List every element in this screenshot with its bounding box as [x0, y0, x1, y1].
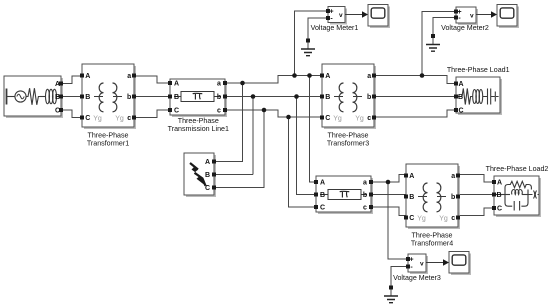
voltage meter3 body: [408, 254, 428, 274]
junction Line2 a node / Voltage Meter3 tap: [386, 180, 391, 185]
transformer T1 (Three-Phase Transformer1) secondary winding: [113, 83, 117, 112]
wire Voltage Meter1 minus to Ground1: [308, 18, 328, 39]
transformer T3 (Three-Phase Transformer3) output port a: [372, 74, 376, 78]
wire Transformer4 a to Load2 A: [459, 175, 494, 183]
wire Transformer3 a to Load1 A: [374, 76, 456, 84]
wire Fault B horizontal segment: [214, 174, 253, 176]
ground block 3 (Voltage Meter3 reference): [384, 286, 398, 303]
svg-text:Voltage Meter3: Voltage Meter3: [393, 274, 441, 282]
svg-text:c: c: [367, 115, 371, 122]
wire Line2 a to Transformer4 A: [371, 175, 406, 183]
ground block 2 (Voltage Meter2 reference): [426, 34, 440, 51]
voltage meter3 plus port: [406, 257, 410, 261]
wire phase B bus tap down to Line2 B: [297, 97, 317, 195]
load1 port B: [454, 95, 458, 99]
svg-text:Three-Phase: Three-Phase: [178, 117, 219, 125]
transformer T1 (Three-Phase Transformer1) input port A: [80, 74, 84, 78]
svg-text:A: A: [325, 73, 330, 80]
transformer T4 (Three-Phase Transformer4) output port b: [456, 195, 460, 199]
load2 parallel RLC branch: [494, 181, 539, 210]
three-phase source output lead: [57, 96, 62, 98]
svg-text:Transformer1: Transformer1: [87, 140, 129, 148]
junction phase B bus / Line2 tap: [294, 94, 299, 99]
wire Fault A tap to phase A bus: [214, 83, 243, 162]
svg-text:B: B: [205, 172, 210, 179]
svg-text:Yg: Yg: [93, 116, 102, 123]
transformer T3 (Three-Phase Transformer3) secondary lead: [353, 96, 362, 98]
three-phase fault port B: [212, 173, 216, 177]
load2 port C: [492, 206, 496, 210]
junction phase A bus / fault tap: [240, 81, 245, 86]
svg-text:Three-Phase: Three-Phase: [411, 231, 452, 239]
voltage meter1 plus port: [326, 9, 330, 13]
signal wire Voltage Meter1 v to Scope1 with arrow: [345, 11, 368, 17]
transformer T1 (Three-Phase Transformer1) input port B: [80, 95, 84, 99]
svg-text:Three-Phase Load2: Three-Phase Load2: [486, 165, 549, 173]
svg-text:C: C: [458, 108, 463, 115]
transformer T1 (Three-Phase Transformer1) primary winding: [99, 83, 103, 112]
transformer T4 (Three-Phase Transformer4) primary winding: [423, 183, 427, 212]
wire Transformer1 b to Line1 B: [134, 96, 170, 98]
transformer T3 (Three-Phase Transformer3) secondary winding: [353, 83, 357, 112]
wire Load1 A node tap to Voltage Meter2 plus: [422, 12, 456, 76]
wire Transformer1 c to Line1 C: [134, 110, 170, 118]
svg-text:b: b: [217, 94, 221, 101]
wire phase A bus tap to Voltage Meter1 plus: [295, 11, 329, 76]
wire Transformer3 b to Load1 B: [374, 96, 456, 98]
transmission line1 output port b: [223, 95, 227, 99]
svg-text:c: c: [363, 205, 367, 212]
svg-text:b: b: [367, 94, 371, 101]
svg-text:Yg: Yg: [333, 116, 342, 123]
scope2 screen: [500, 8, 514, 18]
wire Line2 b to Transformer4 B: [371, 194, 406, 196]
transformer T4 (Three-Phase Transformer4) primary lead: [418, 196, 427, 198]
transformer T1 (Three-Phase Transformer1) output port c: [132, 116, 136, 120]
voltage meter2 minus port: [454, 16, 458, 20]
svg-text:B: B: [409, 194, 414, 201]
wire Line2 c to Transformer4 C: [371, 207, 406, 216]
transformer T3 (Three-Phase Transformer3) input port B: [320, 95, 324, 99]
svg-text:Voltage Meter1: Voltage Meter1: [311, 24, 359, 32]
svg-text:C: C: [205, 185, 210, 192]
voltage meter2 body: [456, 7, 478, 25]
load1 port C: [454, 108, 458, 112]
transformer T4 (Three-Phase Transformer4) body: [406, 164, 460, 229]
three-phase fault body: [184, 153, 216, 197]
transmission line2 B lead: [320, 194, 367, 196]
svg-text:A: A: [174, 81, 179, 88]
transmission line2 output port b: [369, 193, 373, 197]
svg-text:Yg: Yg: [115, 116, 124, 123]
svg-text:Yg: Yg: [439, 216, 448, 223]
wire Voltage Meter2 minus to Ground2: [433, 18, 456, 35]
ground block 1 (Voltage Meter1 reference): [301, 39, 315, 56]
svg-text:b: b: [451, 194, 455, 201]
transformer T3 (Three-Phase Transformer3) body: [322, 64, 376, 129]
svg-text:A: A: [320, 180, 325, 187]
svg-text:B: B: [320, 192, 325, 199]
transformer T4 (Three-Phase Transformer4) input port A: [404, 174, 408, 178]
wire Fault B tap to phase B bus: [252, 97, 254, 175]
three-phase source port B: [59, 95, 63, 99]
load2 port B: [492, 193, 496, 197]
transmission line2 output port a: [369, 180, 373, 184]
transformer T3 (Three-Phase Transformer3) output port b: [372, 95, 376, 99]
junction phase B bus / fault tap: [251, 94, 256, 99]
load1 series RLC branch: [456, 89, 499, 105]
junction Load1 A node / Voltage Meter2 tap: [420, 73, 425, 78]
svg-text:a: a: [367, 73, 371, 80]
svg-text:A: A: [85, 73, 90, 80]
transmission line1 output port a: [223, 81, 227, 85]
three-phase fault port A: [212, 160, 216, 164]
svg-text:+: +: [409, 257, 413, 264]
three-phase source inductor L: [40, 96, 45, 98]
three-phase source body: [4, 76, 63, 118]
transformer T4 (Three-Phase Transformer4) output port c: [456, 216, 460, 220]
transformer T3 (Three-Phase Transformer3) primary winding: [339, 83, 343, 112]
wire Transformer1 a to Line1 A: [134, 76, 170, 83]
svg-text:Three-Phase Load1: Three-Phase Load1: [447, 66, 510, 74]
scope3 body: [449, 252, 471, 276]
wire Fault C tap to phase C bus: [214, 110, 264, 188]
junction phase C bus / fault tap: [262, 108, 267, 113]
wire phase B bus Line1 b to Transformer3 B: [225, 96, 322, 98]
svg-text:Transformer3: Transformer3: [327, 140, 369, 148]
transmission line2 input port B: [314, 193, 318, 197]
transmission line1 pi symbol: [193, 93, 203, 99]
svg-text:v: v: [470, 13, 474, 20]
svg-text:v: v: [339, 12, 343, 19]
wire source B to Transformer1 B: [62, 96, 82, 98]
transformer T4 (Three-Phase Transformer4) secondary winding: [437, 183, 441, 212]
wire source C to Transformer1 C: [62, 110, 82, 118]
three-phase source sine glyph: [17, 94, 24, 99]
svg-text:a: a: [127, 73, 131, 80]
transformer T4 (Three-Phase Transformer4) output port a: [456, 174, 460, 178]
voltage meter2 plus port: [454, 10, 458, 14]
transformer T1 (Three-Phase Transformer1) primary lead: [94, 96, 103, 98]
svg-text:a: a: [363, 180, 367, 187]
wire Transformer4 b to Load2 B: [459, 194, 494, 196]
scope3 screen: [452, 255, 466, 265]
scope2 body: [497, 5, 519, 29]
transformer T3 (Three-Phase Transformer3) input port A: [320, 74, 324, 78]
transmission line2 pi-section box: [328, 190, 361, 200]
transmission line1 body (Three-Phase Transmission Line1): [170, 79, 227, 117]
transmission line1 input port C: [168, 108, 172, 112]
voltage meter1 body: [328, 7, 347, 25]
load2 port A: [492, 180, 496, 184]
three-phase load2 body: [494, 176, 541, 217]
wire source A to Transformer1 A: [62, 76, 82, 84]
transformer T4 (Three-Phase Transformer4) input port C: [404, 216, 408, 220]
svg-text:A: A: [409, 173, 414, 180]
voltage meter3 minus port: [406, 265, 410, 269]
svg-text:A: A: [205, 159, 210, 166]
transformer T1 (Three-Phase Transformer1) secondary lead: [113, 96, 122, 98]
transmission line1 output port c: [223, 108, 227, 112]
transformer T4 (Three-Phase Transformer4) input port B: [404, 195, 408, 199]
svg-text:Transformer4: Transformer4: [411, 240, 453, 248]
svg-text:C: C: [325, 115, 330, 122]
svg-text:Three-Phase: Three-Phase: [87, 131, 128, 139]
svg-text:C: C: [497, 206, 502, 213]
transmission line1 input port A: [168, 81, 172, 85]
transmission line2 input port C: [314, 205, 318, 209]
wire phase C bus tap down to Line2 C: [289, 117, 317, 207]
three-phase fault port C: [212, 186, 216, 190]
transformer T1 (Three-Phase Transformer1) input port C: [80, 116, 84, 120]
transmission line2 output port c: [369, 205, 373, 209]
transformer T4 (Three-Phase Transformer4) secondary lead: [437, 196, 446, 198]
transformer T1 (Three-Phase Transformer1) body: [82, 64, 136, 129]
wire Transformer4 c to Load2 C: [459, 208, 494, 216]
transmission line2 body: [316, 176, 373, 214]
junction phase A bus / Voltage Meter1 tap: [292, 73, 297, 78]
svg-text:c: c: [217, 108, 221, 115]
svg-text:Yg: Yg: [417, 216, 426, 223]
transformer T3 (Three-Phase Transformer3) primary lead: [334, 96, 343, 98]
transmission line1 pi-section box: [181, 92, 214, 102]
svg-text:Three-Phase: Three-Phase: [327, 131, 368, 139]
svg-text:B: B: [496, 192, 501, 199]
svg-text:C: C: [320, 205, 325, 212]
svg-text:B: B: [458, 94, 463, 101]
svg-text:B: B: [325, 94, 330, 101]
transformer T3 (Three-Phase Transformer3) output port c: [372, 116, 376, 120]
scope1 body: [368, 5, 390, 29]
svg-text:+: +: [329, 9, 333, 16]
junction phase C bus / Line2 tap: [286, 115, 291, 120]
svg-text:Voltage Meter2: Voltage Meter2: [441, 24, 489, 32]
junction phase A bus / Line2 tap: [307, 73, 312, 78]
signal wire Voltage Meter2 v to Scope2 with arrow: [476, 11, 497, 17]
transmission line2 pi symbol: [340, 191, 350, 197]
scope1 screen: [371, 8, 385, 18]
svg-text:C: C: [85, 115, 90, 122]
svg-text:b: b: [363, 192, 367, 199]
svg-text:A: A: [497, 180, 502, 187]
transmission line1 input port B: [168, 95, 172, 99]
svg-text:Yg: Yg: [355, 116, 364, 123]
wire phase A bus tap down to Line2 A: [310, 76, 317, 183]
svg-text:C: C: [174, 108, 179, 115]
three-phase fault lightning bolt: [190, 163, 206, 186]
svg-text:Transmission Line1: Transmission Line1: [168, 125, 229, 133]
transmission line2 input port A: [314, 180, 318, 184]
three-phase load1 body: [456, 77, 502, 115]
transformer T1 (Three-Phase Transformer1) output port b: [132, 95, 136, 99]
svg-text:B: B: [85, 94, 90, 101]
three-phase source lead wire: [7, 96, 15, 98]
transmission line1 B lead: [174, 96, 221, 98]
transformer T3 (Three-Phase Transformer3) input port C: [320, 116, 324, 120]
voltage meter1 minus port: [326, 16, 330, 20]
transformer T1 (Three-Phase Transformer1) output port a: [132, 74, 136, 78]
wire Voltage Meter3 minus to Ground3: [391, 267, 408, 286]
three-phase source port C: [59, 108, 63, 112]
three-phase source port A: [59, 82, 63, 86]
wire phase A bus Line1 a to Transformer3 A: [225, 76, 322, 84]
svg-text:c: c: [451, 215, 455, 222]
three-phase source resistor R: [26, 88, 40, 105]
wire Transformer3 c to Load1 C: [374, 110, 456, 117]
svg-text:a: a: [451, 173, 455, 180]
svg-text:C: C: [409, 215, 414, 222]
wire phase C bus Line1 c to Transformer3 C: [225, 110, 322, 117]
signal wire Voltage Meter3 v to Scope3 with arrow: [426, 259, 449, 265]
wire Line2 a node tap to Voltage Meter3 plus: [388, 182, 408, 259]
svg-text:B: B: [174, 94, 179, 101]
svg-text:b: b: [127, 94, 131, 101]
load1 port A: [454, 82, 458, 86]
three-phase source terminal bar: [6, 89, 8, 105]
svg-text:c: c: [127, 115, 131, 122]
svg-text:A: A: [458, 81, 463, 88]
svg-text:a: a: [217, 81, 221, 88]
three-phase source AC symbol circle: [15, 91, 26, 102]
svg-text:v: v: [420, 261, 424, 268]
